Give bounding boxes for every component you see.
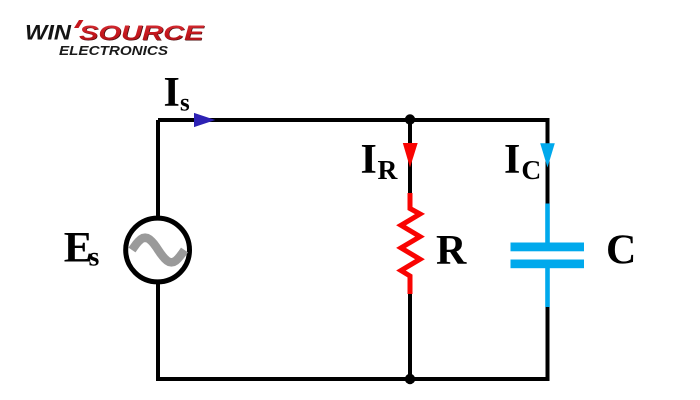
svg-text:s: s <box>89 241 100 272</box>
svg-text:R: R <box>378 154 399 185</box>
svg-text:I: I <box>361 137 377 183</box>
svg-text:SOURCE: SOURCE <box>79 21 204 45</box>
svg-text:s: s <box>180 90 190 117</box>
svg-text:C: C <box>606 228 636 274</box>
svg-text:ELECTRONICS: ELECTRONICS <box>59 43 168 58</box>
svg-text:WIN: WIN <box>25 22 72 45</box>
svg-text:C: C <box>521 154 541 185</box>
svg-text:I: I <box>504 137 520 183</box>
svg-text:I: I <box>164 70 180 116</box>
svg-text:R: R <box>436 228 467 274</box>
